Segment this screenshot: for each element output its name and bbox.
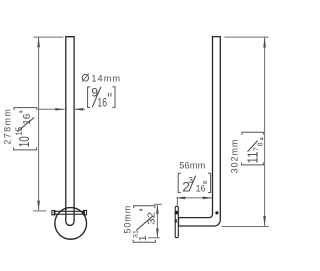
dia 14 dimension line left segment [39,108,65,110]
278mm dimension: bottom extension line [33,210,46,212]
svg-text:56mm: 56mm [179,161,205,171]
flange plate left end cap [52,211,55,215]
svg-text:11: 11 [245,152,262,164]
holder ring (front view circle) [55,208,87,240]
56mm right arrow [203,197,213,200]
svg-text:10: 10 [17,136,33,147]
label [1 31/32"] bottom bracket [133,240,155,243]
label [10 15/16"] top bracket [14,108,37,111]
small slot tick [175,219,177,222]
flange plate right end cap [84,211,87,215]
dia 14 dimension line right segment [74,108,85,110]
50mm arrow up [156,205,159,214]
278mm dimension line [38,37,40,210]
dia 14 right arrow (points left) [74,108,84,111]
label 7/8 slash [248,141,258,152]
302mm dimension: top extension line [224,36,268,38]
svg-text:50mm: 50mm [123,205,133,234]
label [10 15/16"] bottom bracket [14,147,37,150]
label 15/16 slash [17,117,34,131]
keyhole slot (filled) [175,211,178,215]
302mm dimension: bottom extension line [222,226,269,228]
302mm arrow up [263,37,266,47]
label ditto marks [261,138,263,140]
50mm dimension line [156,205,158,237]
screw dot on arm [215,211,218,214]
label [11 7/8"] bottom bracket [242,162,264,165]
50mm arrow down [156,229,159,238]
label 9/16 ditto marks [108,93,111,97]
svg-text:7: 7 [251,147,260,151]
label [9/16"] bracket right [112,87,115,108]
56mm dimension line [176,197,212,199]
label [11 7/8"] top bracket [242,132,264,135]
56mm left extension line [176,198,178,205]
label ditto marks [20,111,22,113]
svg-text:31: 31 [133,230,140,238]
label 9/16 slash [92,87,101,107]
label ditto marks [204,181,206,184]
302mm dimension line [264,37,266,226]
label 31/32 slash [136,216,153,230]
50mm dimension: top extension line [154,203,162,205]
side view tube + arm (bent pipe) [179,37,221,226]
flange plate (front view) bar [54,211,84,214]
302mm arrow down [263,216,266,226]
svg-text:302mm: 302mm [230,139,240,174]
dia 14 left arrow (points right) [55,108,65,111]
278mm arrow up [37,37,40,47]
vertical tube (front view) with U bottom [66,37,74,226]
label 3/16 slash [189,176,196,192]
svg-text:16: 16 [196,183,206,193]
wall plate (side view) [175,206,178,237]
label [2 3/16"] bracket right [208,173,211,192]
svg-text:278mm: 278mm [3,108,13,145]
svg-text:8: 8 [256,142,265,146]
svg-text:Ø14mm: Ø14mm [81,73,121,85]
label [9/16"] bracket left [88,87,91,108]
278mm dimension: top extension line [34,36,64,38]
56mm left arrow [176,197,186,200]
label ditto marks [140,209,142,211]
label [1 31/32"] top bracket [134,206,155,209]
278mm arrow down [37,201,40,211]
svg-text:16: 16 [97,97,107,110]
label [2 3/16"] bracket left [178,173,181,192]
svg-text:16: 16 [22,113,33,124]
svg-text:15: 15 [14,127,25,136]
svg-text:32: 32 [146,212,157,225]
50mm dimension: bottom extension line [148,237,160,239]
